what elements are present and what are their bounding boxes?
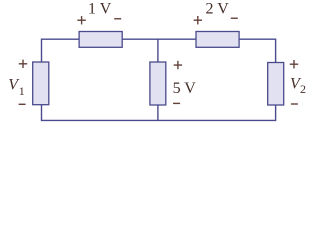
svg-text:2: 2 bbox=[300, 82, 306, 96]
svg-text:2 V: 2 V bbox=[206, 1, 230, 18]
svg-text:1: 1 bbox=[19, 84, 25, 98]
svg-text:5 V: 5 V bbox=[173, 80, 197, 97]
svg-text:1 V: 1 V bbox=[88, 1, 112, 18]
